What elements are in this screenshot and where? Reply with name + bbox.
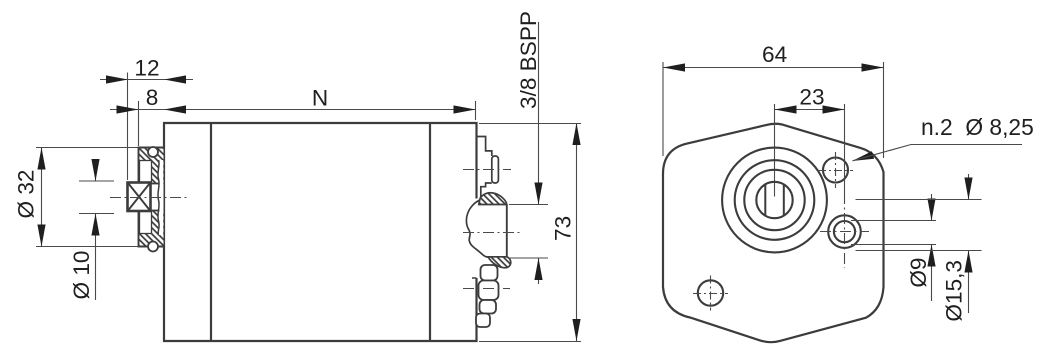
svg-text:8: 8 [146, 85, 159, 110]
O15,3 dim line lower [968, 251, 970, 314]
extension line O32 bottom [36, 246, 140, 248]
seal block outline [139, 148, 164, 247]
O9 ext top [851, 220, 936, 222]
dimension 23 ext right solid [844, 104, 846, 193]
shaft end crossed box [128, 183, 151, 212]
O9 dim line lower [931, 245, 933, 302]
dimension 73 line [576, 123, 578, 341]
n.2 leader arrow [852, 151, 874, 161]
seal ball top [148, 147, 158, 157]
O15,3 arrow up [964, 251, 972, 273]
3/8 BSPP leader line upper [538, 22, 540, 205]
n.2 leader line [853, 145, 1023, 161]
bolt hole bottom left [698, 280, 723, 305]
dimension 8 arrow left [117, 105, 139, 113]
svg-text:N: N [312, 86, 328, 111]
dimension N arrow right [454, 105, 476, 113]
pump center vertical line [774, 104, 776, 197]
port hole inner [834, 221, 855, 242]
bolt hole top right [823, 158, 848, 183]
O15,3 dim line upper [968, 174, 970, 200]
bolt hole top right cross [818, 170, 853, 172]
dimension O10 arrow upper [91, 159, 99, 181]
dimension 12 arrow left [106, 75, 128, 83]
extension line N right [475, 101, 477, 120]
port boss wavy left edge [466, 200, 488, 257]
O9 ext bottom [851, 244, 936, 246]
dimension O10 tick bottom [79, 213, 114, 215]
svg-text:Ø9: Ø9 [906, 258, 931, 288]
port top centerline [463, 169, 511, 171]
dimension 8 arrow right / N arrow left [164, 105, 186, 113]
flange outline [663, 124, 884, 342]
shaft slot right chord [783, 184, 785, 215]
3/8 BSPP arrow down [534, 183, 542, 205]
shaft circle [756, 182, 792, 218]
dimension 23 arrow left [775, 105, 797, 113]
port center line [463, 232, 521, 234]
svg-text:Ø 32: Ø 32 [14, 170, 39, 219]
bearing circle 3 [744, 170, 804, 230]
extension line seal face [138, 101, 140, 146]
break wavy line on body face [158, 160, 159, 235]
seal notch top [140, 161, 152, 184]
svg-text:23: 23 [799, 85, 824, 110]
bottom fitting lobe 2 [479, 281, 499, 301]
pump body outline [164, 123, 477, 341]
port boss hatched cap [479, 193, 507, 205]
3/8 BSPP leader line lower [538, 258, 540, 284]
O9 dim line upper [931, 194, 933, 221]
svg-text:12: 12 [134, 56, 159, 81]
body inner line right cover joint [429, 123, 431, 341]
port top step bump [492, 156, 499, 183]
dimension 12 line [100, 79, 193, 81]
extension line shaft end [127, 73, 129, 181]
shaft white band [151, 184, 164, 210]
dimension 73 arrow bottom [572, 319, 580, 341]
bottom fitting step 4 [476, 314, 490, 328]
port hole cross horizontal [820, 231, 869, 233]
svg-text:3/8 BSPP: 3/8 BSPP [516, 11, 541, 109]
dimension O10 tick top [79, 180, 114, 182]
port tick top [509, 204, 548, 206]
dimension 12 arrow right [164, 75, 186, 83]
extension line O32 top [36, 147, 139, 149]
svg-text:73: 73 [551, 216, 576, 241]
O15,3 arrow down [964, 178, 972, 200]
seal notch bottom [140, 211, 152, 234]
O15,3 ext bottom [856, 250, 982, 252]
dimension 64 arrow left [663, 63, 685, 71]
port hole outer [828, 215, 861, 248]
seal ball bottom [148, 242, 158, 252]
dimension O32 arrow bottom [37, 225, 45, 247]
port boss white blob masking body edge [466, 192, 511, 267]
dimension 64 ext left [662, 62, 664, 156]
dimension O10 line lower [95, 214, 97, 301]
port hole center vertical dashdot [844, 193, 846, 268]
shaft edge top [151, 183, 160, 185]
dimension 73 arrow top [572, 123, 580, 145]
svg-text:n.2 Ø 8,25: n.2 Ø 8,25 [921, 114, 1034, 140]
bearing circle 2 [735, 160, 815, 240]
dimension 64 ext right [883, 62, 885, 158]
dimension 64 arrow right [862, 63, 884, 71]
shaft slot left chord [764, 184, 766, 215]
seal block hatch [139, 148, 164, 247]
dimension O32 line [41, 148, 43, 247]
dimension O10 arrow lower [91, 214, 99, 236]
bottom fitting lobe 1 [481, 265, 498, 281]
dimension 23 line [775, 109, 845, 111]
bolt hole bottom left cross [693, 293, 728, 295]
body inner line left flange joint [210, 123, 212, 341]
O9 arrow up [927, 245, 935, 267]
3/8 BSPP arrow up [534, 258, 542, 280]
bottom fitting step 3 [480, 300, 497, 314]
port boss bottom hatched wedge [488, 257, 511, 268]
svg-text:Ø 10: Ø 10 [69, 251, 94, 300]
shaft edge bottom [151, 210, 160, 212]
bottom port centerline [463, 288, 510, 290]
bearing circle outer [722, 148, 827, 253]
O9 arrow down [927, 199, 935, 221]
dimension O10 line upper [95, 160, 97, 181]
shaft centerline [110, 197, 187, 199]
port boss right edge [506, 205, 508, 257]
dimension 8 and N line [110, 109, 476, 111]
body edge tick at section resume [472, 277, 477, 279]
dimension O32 arrow top [37, 148, 45, 170]
port tick bottom [509, 257, 548, 259]
dimension 64 line [663, 67, 884, 69]
svg-text:64: 64 [762, 42, 787, 67]
white strip right of break line [158, 160, 163, 235]
port top step outline [477, 137, 492, 198]
O15,3 ext top [856, 199, 982, 201]
dimension 23 arrow right [823, 105, 845, 113]
dimension 73 extension bottom [479, 341, 581, 343]
dimension 73 extension top [479, 123, 581, 125]
svg-text:Ø15,3: Ø15,3 [942, 260, 967, 322]
